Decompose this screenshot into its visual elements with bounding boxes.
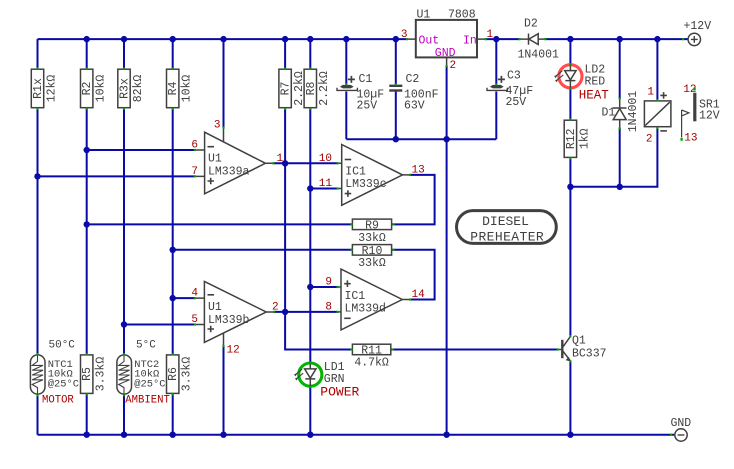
svg-text:@25°C: @25°C: [134, 378, 165, 390]
resistor R1x: [31, 69, 58, 108]
svg-text:2: 2: [646, 134, 653, 146]
svg-text:12: 12: [227, 345, 240, 357]
svg-text:10kΩ: 10kΩ: [181, 75, 194, 103]
svg-text:12kΩ: 12kΩ: [45, 75, 58, 103]
diode D1: [602, 91, 640, 133]
junction LD1/GND rail: [307, 432, 313, 438]
svg-text:C1: C1: [359, 73, 373, 86]
svg-text:3.3kΩ: 3.3kΩ: [95, 357, 108, 392]
wire IC1c pin11 from R8 column: [310, 188, 338, 190]
wire column R4 to R6: [172, 108, 174, 354]
resistor R2: [81, 69, 108, 108]
junction R3x/top rail: [121, 36, 127, 42]
wire relay pin2 down and left to collector node: [570, 127, 657, 187]
junction U1 pin12/GND rail: [220, 432, 226, 438]
thermistor NTC2: [117, 340, 170, 407]
junction C3/top rail: [493, 36, 499, 42]
svg-text:+12V: +12V: [684, 20, 712, 33]
svg-text:8: 8: [325, 302, 332, 314]
svg-text:HEAT: HEAT: [579, 88, 610, 102]
wire top rail right segment (D2 to +12V terminal): [545, 38, 688, 40]
junction R5/GND rail: [84, 432, 90, 438]
wire collector node down to Q1 collector: [569, 187, 571, 336]
svg-text:GND: GND: [435, 47, 456, 60]
junction D1/top rail: [617, 36, 623, 42]
junction D1/collector node: [617, 184, 623, 190]
svg-text:R5: R5: [81, 367, 94, 381]
svg-text:25V: 25V: [506, 96, 527, 109]
svg-text:GND: GND: [671, 417, 692, 430]
LED LD2 red HEAT: [554, 64, 609, 103]
junction LD2/top rail: [567, 36, 573, 42]
wire 7808 GND pin to bus: [446, 66, 448, 139]
junction U1 pin3/top rail: [220, 36, 226, 42]
svg-text:5°C: 5°C: [136, 340, 156, 352]
svg-text:U1: U1: [417, 9, 431, 22]
junction C1/top rail: [343, 36, 349, 42]
junction R7 wired-AND at pin1: [282, 160, 288, 166]
junction R9 to node A: [84, 221, 90, 227]
wire column R8 down to LD1: [309, 108, 311, 363]
junction R8-LD1 node to pin9: [307, 284, 313, 290]
junction 7808 GND/GND bus: [443, 136, 449, 142]
svg-text:R9: R9: [365, 219, 379, 232]
svg-text:U1: U1: [208, 153, 222, 166]
svg-text:LM339a: LM339a: [208, 165, 250, 178]
svg-text:D2: D2: [524, 18, 538, 31]
terminal GND bottom right: [671, 417, 692, 441]
junction R8/top rail: [307, 36, 313, 42]
svg-text:7808: 7808: [448, 9, 476, 22]
wire column NTC2 to GND rail: [123, 394, 125, 434]
terminal +12V: [684, 20, 712, 46]
svg-text:LM339c: LM339c: [345, 178, 387, 191]
svg-text:IC1: IC1: [345, 290, 366, 303]
resistor R10: [352, 245, 391, 270]
junction GND bus/GND rail: [443, 432, 449, 438]
wire GND bus under capacitors: [346, 138, 496, 140]
wire column R2 top: [86, 39, 88, 69]
svg-text:25V: 25V: [357, 100, 378, 113]
thermistor NTC1: [30, 340, 79, 407]
svg-text:33kΩ: 33kΩ: [358, 232, 386, 245]
resistor R4: [167, 69, 194, 108]
junction node B divider R1x-NTC1 to pin7: [34, 173, 40, 179]
wire column R7 top: [284, 39, 286, 69]
svg-text:BC337: BC337: [572, 348, 607, 361]
svg-text:U1: U1: [208, 301, 222, 314]
wire R11 right to Q1 base: [391, 349, 558, 351]
wire column C3 bottom: [495, 92, 497, 140]
junction C2/top rail: [393, 36, 399, 42]
svg-text:C3: C3: [507, 70, 521, 83]
wire U1a pin6 input: [87, 149, 196, 151]
wire column R3x top: [123, 39, 125, 69]
svg-text:C2: C2: [406, 73, 420, 86]
svg-text:In: In: [463, 34, 477, 47]
resistor R7: [279, 69, 306, 108]
wire R9 right up to IC1c pin13: [392, 175, 435, 225]
title badge DIESEL PREHEATER: [457, 211, 557, 245]
svg-text:LM339b: LM339b: [208, 314, 250, 327]
wire LD1 to GND rail: [309, 387, 311, 435]
svg-text:4.7kΩ: 4.7kΩ: [354, 357, 389, 370]
wire column R2 to R5: [86, 108, 88, 354]
junction node C divider R4-R6 to pin4: [170, 295, 176, 301]
junction node D divider R3x-NTC2 to pin5: [121, 321, 127, 327]
wire column C1 bottom to GND bus: [345, 92, 347, 140]
svg-text:1kΩ: 1kΩ: [578, 128, 591, 149]
junction R7/top rail: [282, 36, 288, 42]
junction R7 wired-AND at pin2: [282, 309, 288, 315]
op-amp IC1d LM339: [325, 269, 425, 330]
wire column C2 bottom: [395, 92, 397, 140]
wire column NTC1 to GND rail: [37, 394, 39, 434]
resistor R5: [81, 355, 108, 394]
svg-text:R1x: R1x: [32, 78, 45, 99]
wire top rail right segment (+12V net, In pin to D2): [485, 38, 520, 40]
resistor R6: [167, 355, 194, 394]
wire column C3 top: [495, 39, 497, 84]
relay coil K1: [644, 87, 671, 146]
wire U1b pin4 input: [173, 297, 196, 299]
svg-text:R10: R10: [362, 245, 383, 258]
svg-text:R12: R12: [565, 128, 578, 149]
svg-text:POWER: POWER: [320, 385, 359, 400]
svg-text:2: 2: [450, 60, 457, 72]
wire LD2 from top rail: [569, 39, 571, 64]
wire R10 right down to IC1d pin14: [392, 250, 435, 300]
LED LD1 green POWER: [294, 361, 360, 400]
svg-text:IC1: IC1: [345, 165, 366, 178]
svg-text:R8: R8: [305, 82, 318, 96]
junction dots top rail: [84, 36, 661, 42]
op-amp U1b LM339: [191, 281, 278, 342]
wire bottom rail (GND): [38, 434, 675, 436]
junction R10 to node C: [170, 247, 176, 253]
svg-text:3: 3: [214, 120, 221, 132]
svg-text:R7: R7: [280, 82, 293, 96]
svg-text:PREHEATER: PREHEATER: [470, 230, 544, 245]
wire U1a pin7 input: [38, 175, 196, 177]
svg-text:RED: RED: [585, 75, 606, 88]
resistor R8: [304, 69, 331, 108]
wire U1b pin5 input: [124, 324, 196, 326]
resistor R9: [352, 219, 391, 245]
wire R10 left to R4/R6 divider: [173, 249, 353, 251]
transistor Q1 BC337: [558, 335, 607, 362]
svg-text:50°C: 50°C: [49, 340, 76, 352]
junction NTC2/GND rail: [121, 432, 127, 438]
junction R8-LD1 node to pin11: [307, 185, 313, 191]
svg-text:82kΩ: 82kΩ: [132, 75, 145, 103]
svg-text:1N4001: 1N4001: [518, 49, 560, 62]
svg-text:2.2kΩ: 2.2kΩ: [318, 71, 331, 106]
svg-text:1N4001: 1N4001: [627, 91, 640, 133]
svg-text:33kΩ: 33kΩ: [358, 257, 386, 270]
pin connection ticks (green): [36, 38, 695, 436]
junction R4/top rail: [170, 36, 176, 42]
junction R6/GND rail: [170, 432, 176, 438]
junction C2/GND bus: [393, 136, 399, 142]
svg-text:1: 1: [487, 29, 494, 41]
wire Q1 emitter to GND rail: [569, 361, 571, 435]
svg-text:Out: Out: [419, 34, 440, 47]
svg-text:AMBIENT: AMBIENT: [125, 395, 170, 407]
junction R12/Q1 collector node: [567, 184, 573, 190]
wire R9 left to R2/R5 divider: [87, 223, 353, 225]
wire column R5 to GND rail: [86, 394, 88, 435]
svg-text:R2: R2: [81, 82, 94, 96]
wire column R6 to GND rail: [172, 394, 174, 435]
resistor R12: [564, 120, 591, 157]
junction R2/top rail: [84, 36, 90, 42]
op-amp U1a LM339: [191, 120, 283, 357]
svg-text:13: 13: [412, 165, 425, 177]
svg-text:@25°C: @25°C: [48, 378, 79, 390]
wire column R1x to NTC1: [37, 108, 39, 354]
svg-text:R6: R6: [167, 367, 180, 381]
wire U1b out pin2 to IC1d pin8: [274, 311, 338, 313]
wire column R1x top: [37, 39, 39, 69]
wire column R8 top: [309, 39, 311, 69]
wire U1a out pin1 to IC1c pin10: [273, 162, 338, 164]
junction dots bottom rail: [84, 432, 574, 438]
wire column R7 down to R11: [285, 108, 352, 349]
junction dots middle nets: [34, 136, 623, 328]
junction relay pin1/top rail: [654, 36, 660, 42]
resistor R3x: [118, 69, 145, 108]
svg-text:12V: 12V: [699, 110, 720, 123]
junction node A divider R2-R5 to pin6: [84, 147, 90, 153]
wire column C1 top: [345, 39, 347, 84]
svg-text:3.3kΩ: 3.3kΩ: [181, 357, 194, 392]
op-amp IC1c LM339: [319, 145, 425, 206]
svg-text:D1: D1: [602, 107, 616, 120]
svg-text:14: 14: [412, 289, 426, 301]
wire relay pin1 from rail: [656, 39, 658, 101]
svg-text:2: 2: [272, 302, 279, 314]
capacitor C2: [389, 73, 438, 113]
svg-text:10: 10: [319, 153, 332, 165]
wire LD2 to R12: [569, 89, 571, 120]
regulator U1 7808: [401, 9, 494, 73]
wire column R3x to NTC2: [123, 108, 125, 354]
wire U1 pin3 supply from top rail: [223, 39, 225, 128]
svg-text:11: 11: [319, 178, 333, 190]
svg-text:10kΩ: 10kΩ: [95, 75, 108, 103]
capacitor C3: [487, 70, 533, 110]
svg-text:63V: 63V: [404, 100, 425, 113]
wire IC1d pin9 from R8 column: [310, 286, 338, 288]
junction Q1 emitter/GND rail: [567, 432, 573, 438]
svg-text:9: 9: [325, 277, 332, 289]
wire column R4 top: [172, 39, 174, 69]
wire U1 pin12 to GND rail: [223, 346, 225, 435]
svg-text:R4: R4: [167, 82, 180, 96]
svg-text:Q1: Q1: [572, 335, 586, 348]
wire top rail left segment (+8V net): [38, 38, 408, 40]
svg-text:DIESEL: DIESEL: [482, 214, 529, 229]
wire R12 to collector node: [569, 158, 571, 187]
wire GND bus down to bottom rail: [446, 139, 448, 435]
wire D1 bottom lead to node: [619, 128, 621, 187]
capacitor C1: [337, 73, 384, 113]
svg-text:MOTOR: MOTOR: [42, 395, 74, 407]
diode D2: [518, 18, 560, 62]
svg-text:LM339d: LM339d: [345, 303, 386, 316]
wire D1 top lead to rail: [619, 39, 621, 99]
resistor R11: [352, 344, 390, 369]
svg-text:13: 13: [684, 133, 697, 145]
wire column C2 top: [395, 39, 397, 84]
svg-text:1: 1: [647, 87, 654, 99]
svg-text:R3x: R3x: [119, 78, 132, 99]
connector/contact SR1: [682, 84, 720, 145]
